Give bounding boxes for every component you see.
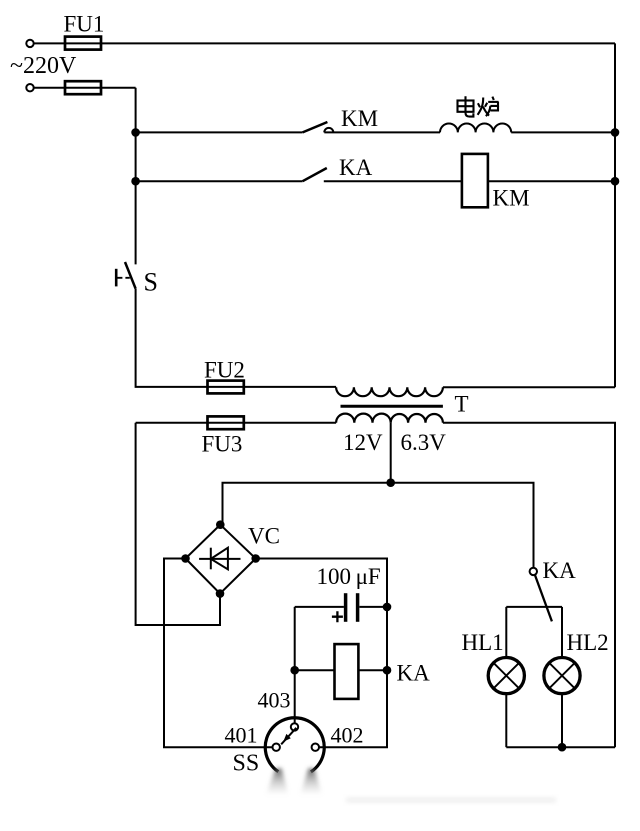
smudge left (erased watermark): [267, 769, 289, 794]
wire row1 right segment: [511, 131, 615, 133]
svg-text:~220V: ~220V: [10, 53, 77, 79]
svg-text:401: 401: [225, 722, 258, 747]
svg-text:FU2: FU2: [204, 357, 245, 382]
svg-text:FU3: FU3: [202, 431, 243, 456]
wire top row from terminal through FU1 to right rail: [34, 42, 615, 44]
wire secondary right end down the right rail: [443, 423, 615, 748]
wire VC right vertex to mid-right vertical (DC+): [256, 559, 387, 748]
wire HL2 bottom lead: [561, 694, 563, 748]
transformer T core bar: [341, 405, 443, 408]
capacitor polarity +: [332, 611, 343, 622]
wire mid horizontal (center tap bus): [223, 483, 534, 568]
svg-text:KA: KA: [397, 661, 431, 686]
transformer T secondary winding: [336, 414, 443, 423]
capacitor C 100uF row: left wire: [295, 606, 344, 608]
node lamps bottom junction: [558, 743, 567, 752]
diode inside VC: [199, 548, 240, 570]
wire row1 middle segment: [324, 131, 440, 133]
wire HL1 top lead: [505, 607, 507, 658]
capacitor C right wire: [359, 606, 387, 608]
lamp HL1: [488, 658, 524, 694]
svg-text:KA: KA: [543, 558, 577, 583]
wire HL2 top lead: [561, 607, 563, 658]
svg-text:403: 403: [258, 688, 291, 713]
terminal L (upper supply terminal): [26, 40, 33, 47]
fuse FU3: [208, 416, 244, 429]
wire left rail lower + FU2 row: [136, 289, 337, 387]
contact 402: [312, 744, 319, 751]
wire row1 left segment: [136, 131, 303, 133]
lamp HL2: [544, 658, 580, 694]
node junction row1 left: [131, 128, 140, 137]
transformer T primary winding: [336, 387, 443, 396]
wire row2 left segment: [136, 180, 303, 182]
wire secondary center tap: [390, 423, 392, 483]
node VC left vertex: [181, 554, 190, 563]
svg-text:KM: KM: [493, 186, 530, 211]
svg-text:6.3V: 6.3V: [401, 430, 447, 455]
svg-text:T: T: [455, 392, 469, 417]
svg-text:SS: SS: [233, 751, 260, 777]
node junction row1 right: [611, 128, 620, 137]
svg-text:100 μF: 100 μF: [317, 564, 381, 589]
svg-text:HL1: HL1: [462, 630, 504, 655]
smudge bottom streak: [346, 797, 556, 803]
wire second row from terminal through fuse to left rail: [34, 87, 136, 89]
switch S blade: [125, 262, 136, 289]
svg-text:KM: KM: [341, 106, 378, 131]
svg-text:HL2: HL2: [567, 630, 609, 655]
node KA coil row right junction: [383, 666, 392, 675]
wire lamps bottom bus: [506, 746, 615, 748]
node junction row2 left: [131, 177, 140, 186]
svg-text:KA: KA: [339, 155, 373, 180]
wiper arrow (403 toward 401): [281, 728, 296, 745]
wire capacitor left drop to contact 403: [294, 607, 296, 723]
wire KA coil row: [295, 669, 387, 671]
node capacitor right junction: [383, 603, 392, 612]
node VC right vertex: [251, 554, 260, 563]
fuse FU2: [208, 381, 244, 394]
node KA coil row left junction: [290, 666, 299, 675]
contact 403: [291, 723, 298, 730]
node VC top vertex: [216, 520, 225, 529]
wire row2 right segment: [488, 180, 615, 182]
wire lamp top bar: [506, 606, 562, 608]
wire HL1 bottom lead: [505, 694, 507, 748]
capacitor C plates: [344, 593, 348, 622]
selector SS dial circle (bottom arc erased): [265, 718, 324, 772]
fuse FU1b (second fuse): [65, 81, 101, 94]
contact 401: [273, 744, 280, 751]
switch KM fixed contact arc: [324, 128, 333, 133]
wire left rail upper (down to switch S): [135, 88, 137, 265]
node center tap junction: [386, 478, 395, 487]
switch S mechanical link (dashed): [117, 277, 129, 279]
switch KA blade: [535, 575, 552, 622]
svg-text:VC: VC: [248, 524, 280, 549]
wire right rail upper: [614, 43, 616, 387]
wire VC left vertex to bottom bus (DC-): [164, 559, 272, 748]
label dianlu (electric furnace, hand-drawn glyphs): [458, 96, 499, 116]
svg-text:402: 402: [331, 722, 364, 747]
rectifier VC bridge diamond: [186, 525, 256, 594]
wire row2 middle segment: [324, 180, 462, 182]
switch KA (lamp circuit) pivot circle: [530, 568, 537, 575]
coil KM (contactor coil): [462, 154, 488, 207]
heater EL (electric furnace coil): [440, 123, 511, 132]
wire primary right end to right rail: [443, 386, 615, 388]
svg-text:FU1: FU1: [64, 12, 105, 37]
switch S operator bar: [115, 269, 118, 287]
svg-text:S: S: [144, 267, 158, 296]
node VC bottom vertex: [216, 589, 225, 598]
switch KA contact blade: [303, 168, 327, 181]
wire FU3 row (secondary left end to left drop): [136, 422, 337, 424]
coil KA (relay coil): [335, 644, 359, 699]
node junction row2 right: [611, 177, 620, 186]
fuse FU1: [65, 37, 101, 50]
svg-text:12V: 12V: [343, 430, 383, 455]
smudge right (erased watermark): [301, 769, 322, 794]
switch KM contact blade: [303, 122, 328, 132]
wire left drop to rectifier bottom: [136, 423, 220, 625]
terminal N (lower supply terminal): [26, 84, 33, 91]
